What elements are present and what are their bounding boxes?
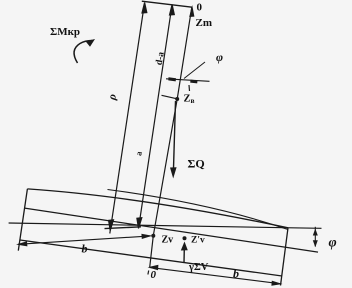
level line at Zm depth with arrow blobs bbox=[166, 79, 210, 82]
svg-text:Zв: Zв bbox=[184, 94, 195, 106]
footing right edge (extended below as tick) bbox=[281, 228, 289, 286]
node 0 (bottom) with tick bbox=[147, 271, 150, 275]
Zv level mark at Zb bbox=[162, 95, 177, 98]
svg-text:Z′v: Z′v bbox=[191, 235, 205, 245]
axis 0-0 (tilted column axis) bbox=[150, 7, 192, 267]
column top edge bbox=[142, 1, 192, 7]
phi leader line (top) bbox=[184, 62, 205, 79]
node Zb dot bbox=[175, 97, 179, 101]
svg-text:0: 0 bbox=[197, 2, 203, 14]
dimension line a (middle line of column) bbox=[137, 5, 174, 229]
svg-text:γΣV: γΣV bbox=[188, 262, 209, 273]
footing top edge bbox=[27, 189, 288, 228]
node Zv dot bbox=[151, 234, 155, 238]
svg-text:b: b bbox=[82, 242, 88, 256]
phi gap double arrow (right) bbox=[314, 227, 316, 247]
footing bottom edge bbox=[20, 240, 282, 276]
dimension b (right) bbox=[150, 267, 281, 283]
svg-text:Zm: Zm bbox=[196, 17, 213, 29]
dimension line rho (left line of column) bbox=[109, 3, 147, 234]
footing left edge (extended below as tick) bbox=[18, 189, 27, 251]
svg-text:0: 0 bbox=[151, 269, 157, 281]
moment arc arrow bbox=[74, 41, 92, 64]
svg-text:b: b bbox=[233, 267, 239, 281]
svg-text:φ: φ bbox=[329, 236, 337, 251]
svg-text:ΣМкр: ΣМкр bbox=[50, 26, 80, 38]
axis top arrowhead bbox=[189, 5, 194, 17]
footing step line bbox=[108, 190, 289, 230]
base level mark under column bbox=[105, 227, 142, 229]
force sumQ arrow bbox=[173, 101, 175, 172]
short dash below leader bbox=[188, 85, 191, 91]
svg-text:Zv: Zv bbox=[162, 235, 174, 246]
svg-text:ΣQ: ΣQ bbox=[188, 157, 205, 171]
node Z'v dot bbox=[183, 236, 187, 240]
horizontal reference line bbox=[9, 223, 322, 228]
force gamma sum V arrow (up) bbox=[183, 244, 185, 263]
footing middle line F2 bbox=[25, 208, 318, 252]
dimension b (left) bbox=[18, 236, 151, 244]
svg-text:φ: φ bbox=[216, 50, 223, 64]
